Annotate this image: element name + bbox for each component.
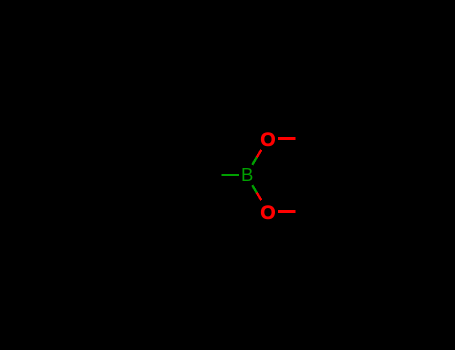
svg-text:B: B <box>241 164 253 185</box>
svg-text:O: O <box>260 129 275 151</box>
svg-text:O: O <box>260 202 275 224</box>
